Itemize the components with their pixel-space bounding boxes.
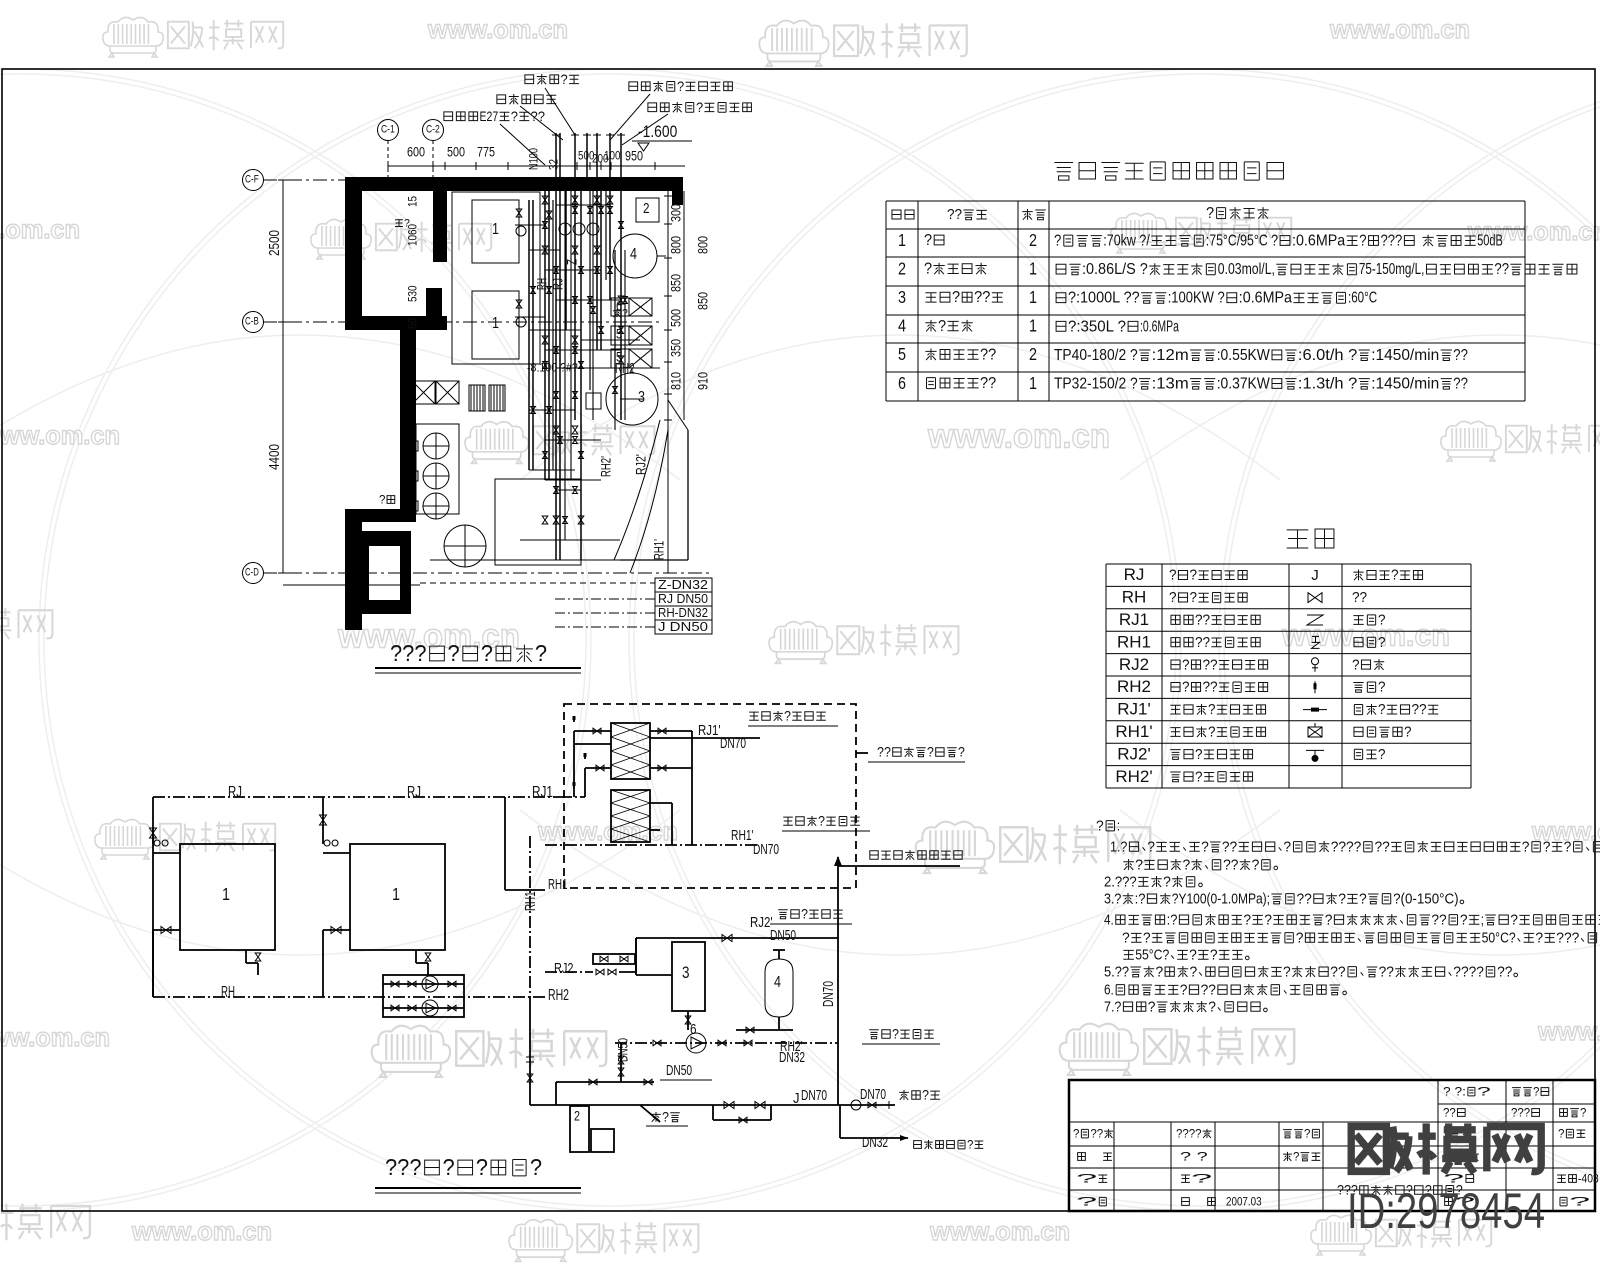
svg-text:www.om.cn: www.om.cn	[1329, 14, 1470, 44]
svg-text:C-F: C-F	[245, 174, 259, 186]
svg-text:1: 1	[1029, 316, 1037, 336]
svg-text:ID:2978454: ID:2978454	[1347, 1183, 1545, 1239]
svg-text:www.om.cn: www.om.cn	[927, 417, 1110, 455]
title block grid	[1437, 1080, 1439, 1211]
watermark tile	[1311, 1215, 1371, 1255]
svg-text:?: ?	[924, 261, 932, 278]
svg-text:Z-DN32: Z-DN32	[658, 577, 708, 592]
svg-text:?: ?	[1076, 1195, 1098, 1209]
svg-text::?: :?	[1167, 912, 1178, 928]
svg-text:350: 350	[668, 339, 683, 357]
svg-text:?: ?	[1148, 999, 1156, 1015]
svg-text:?: ?	[1243, 912, 1251, 928]
svg-text:?: ?	[892, 1026, 899, 1041]
svg-text:-8.100 ?#?: -8.100 ?#?	[527, 361, 578, 375]
equipment row 1	[898, 230, 906, 250]
svg-text:15: 15	[406, 196, 420, 207]
svg-text:1: 1	[1029, 258, 1037, 278]
svg-text:5: 5	[898, 344, 906, 364]
svg-text:?: ?	[1208, 702, 1216, 718]
riser top ticks	[552, 134, 560, 136]
svg-text:?: ?	[938, 318, 946, 335]
equipment row 4	[898, 316, 906, 336]
svg-text:RJ2: RJ2	[1119, 655, 1149, 674]
svg-text:?: ?	[1156, 964, 1164, 980]
scheme pipe RH	[153, 996, 545, 998]
svg-text:??: ??	[1379, 964, 1394, 980]
svg-text:RJ1: RJ1	[1119, 610, 1149, 629]
svg-text:800: 800	[695, 236, 710, 254]
svg-text:RJ2': RJ2'	[1117, 744, 1150, 763]
svg-text:C-2: C-2	[426, 124, 440, 136]
svg-text:810: 810	[668, 372, 683, 390]
svg-text:?: ?	[952, 289, 960, 306]
svg-text:RH1': RH1'	[651, 539, 666, 560]
svg-text:?: ?	[1359, 891, 1367, 907]
svg-text:E27: E27	[480, 108, 499, 124]
svg-text:?: ?	[1283, 839, 1291, 855]
svg-text:2007.03: 2007.03	[1226, 1195, 1262, 1209]
floor drain circle	[444, 525, 486, 567]
main bottom line	[530, 1104, 841, 1106]
svg-text:DN32: DN32	[779, 1050, 805, 1066]
svg-text::70kw ?/: :70kw ?/	[1103, 233, 1150, 250]
svg-text:100: 100	[604, 149, 621, 163]
svg-text:DN70: DN70	[860, 1087, 886, 1103]
svg-text:Z: Z	[564, 259, 579, 265]
svg-text:?: ?	[1533, 1085, 1540, 1099]
svg-text:?: ?	[1391, 568, 1399, 584]
svg-text:?: ?	[1073, 1127, 1080, 1141]
svg-text:5: 5	[616, 326, 622, 341]
svg-text:www.om.cn: www.om.cn	[0, 214, 80, 244]
svg-text:?: ?	[927, 744, 934, 759]
svg-text:?: ?	[1208, 999, 1216, 1015]
equipment table title	[1054, 162, 1283, 180]
svg-text:?: ?	[1208, 725, 1216, 741]
svg-text:1: 1	[222, 884, 230, 904]
svg-text:RJ: RJ	[550, 278, 565, 290]
hx plate B	[611, 790, 650, 842]
svg-text:RH2: RH2	[548, 987, 569, 1004]
equipment row 2	[898, 258, 906, 278]
balance tank line	[837, 857, 839, 1105]
axis C-1	[378, 120, 399, 141]
svg-text:600: 600	[407, 144, 425, 159]
svg-text:?: ?	[1169, 590, 1177, 606]
plan risers	[555, 133, 557, 560]
svg-text:4: 4	[774, 974, 781, 991]
svg-text:2.???: 2.???	[1104, 874, 1137, 890]
scheme title	[385, 1154, 542, 1180]
svg-text:RH1: RH1	[523, 892, 539, 912]
svg-text:??: ??	[1297, 891, 1312, 907]
svg-text:3: 3	[898, 287, 906, 307]
watermark tile	[1060, 1024, 1138, 1075]
svg-text:??: ??	[1494, 261, 1509, 278]
svg-text:www.om.cn: www.om.cn	[1537, 1016, 1600, 1046]
svg-text:1: 1	[492, 315, 499, 332]
plan bottom pipe labels	[655, 578, 712, 592]
svg-text:?: ?	[1183, 857, 1191, 873]
svg-text:?: ?	[1190, 964, 1198, 980]
svg-text:?: ?	[1378, 613, 1386, 629]
legend title	[1287, 529, 1334, 548]
svg-text:32: 32	[547, 159, 561, 170]
svg-text::1.3t/h ?: :1.3t/h ?	[1298, 376, 1358, 393]
svg-text:?: ?	[1352, 657, 1360, 673]
svg-text:DN50: DN50	[770, 928, 796, 944]
svg-text:?: ?	[1378, 747, 1386, 763]
DN50 drop	[615, 1038, 630, 1062]
boiler 1 top	[472, 200, 519, 263]
boiler 1 bottom	[472, 291, 519, 359]
svg-text:?: ?	[1569, 1195, 1591, 1209]
svg-text:?: ?	[1190, 568, 1198, 584]
svg-text:?: ?	[1378, 635, 1386, 651]
pool flow label	[877, 744, 965, 759]
svg-text:?: ?	[443, 1154, 455, 1180]
svg-text::1450/min: :1450/min	[1371, 376, 1439, 393]
svg-text:50°C?: 50°C?	[1482, 930, 1516, 946]
hx boxes 6 5 5	[611, 298, 652, 316]
svg-text:?: ?	[1378, 680, 1386, 696]
svg-text:6: 6	[898, 373, 906, 393]
svg-text:??: ??	[1412, 702, 1427, 718]
svg-text:RH: RH	[1122, 588, 1147, 607]
svg-text:RJ: RJ	[1124, 565, 1145, 584]
svg-text:RH1': RH1'	[731, 828, 754, 844]
svg-text:?: ?	[924, 232, 932, 249]
svg-text:2: 2	[643, 201, 650, 217]
svg-text::100KW ?: :100KW ?	[1168, 290, 1225, 307]
svg-text::0.37KW: :0.37KW	[1217, 376, 1270, 393]
svg-text:?: ?	[511, 108, 518, 124]
svg-text:?: ?	[1564, 839, 1572, 855]
svg-text:3.?: 3.?	[1104, 891, 1121, 907]
svg-text:?: ?	[1206, 205, 1214, 222]
svg-text:??: ??	[1223, 857, 1238, 873]
svg-text:J: J	[793, 1091, 800, 1107]
svg-text:500: 500	[447, 144, 465, 159]
svg-text:RH: RH	[221, 984, 235, 1001]
svg-text:??: ??	[980, 346, 996, 363]
svg-text:??: ??	[1443, 1106, 1456, 1120]
svg-text:910: 910	[695, 372, 710, 390]
svg-text:?: ?	[1096, 818, 1104, 834]
riser valves extra	[573, 207, 578, 214]
plan x-boxes	[412, 381, 435, 404]
pipe RJ1'	[650, 737, 760, 739]
svg-text:75-150mg/L,: 75-150mg/L,	[1359, 261, 1425, 278]
pipe RH1'	[545, 844, 760, 846]
svg-text:TP40-180/2 ?: TP40-180/2 ?	[1054, 347, 1138, 364]
pump group	[383, 975, 464, 1017]
watermark tile	[1441, 421, 1501, 461]
svg-text:?: ?	[1195, 769, 1203, 785]
svg-text:?: ?	[530, 1154, 542, 1180]
svg-text:850: 850	[668, 274, 683, 292]
svg-text:C-D: C-D	[245, 567, 259, 579]
plan left dim line	[282, 180, 284, 573]
notes	[1096, 818, 1120, 834]
plan small manifold box	[586, 393, 601, 409]
svg-text:www.om.cn: www.om.cn	[0, 420, 120, 450]
watermark tile	[103, 17, 163, 57]
city water line	[841, 1104, 895, 1106]
svg-text:??: ??	[1330, 964, 1345, 980]
svg-text:???: ???	[390, 640, 427, 666]
svg-text:??: ??	[1497, 964, 1512, 980]
svg-text:?(0-150°C): ?(0-150°C)	[1393, 891, 1459, 907]
equipment table grid	[886, 200, 1525, 202]
svg-text:??: ??	[974, 289, 990, 306]
svg-text:DN70: DN70	[720, 736, 746, 752]
svg-text:??: ??	[1195, 613, 1210, 629]
svg-text:1: 1	[492, 221, 499, 238]
watermark tile	[465, 422, 528, 464]
right dim chain	[667, 191, 669, 573]
svg-text:?: ?	[1338, 891, 1346, 907]
svg-text:?: ?	[1535, 930, 1543, 946]
boiler B	[350, 844, 445, 950]
plan riser annotation N100	[527, 148, 541, 170]
svg-text:?: ?	[535, 640, 547, 666]
vertical labels RH RJ	[534, 278, 549, 290]
svg-text:www.om.cn: www.om.cn	[1281, 618, 1450, 653]
svg-text:????: ????	[1453, 964, 1484, 980]
svg-text:????: ????	[1331, 839, 1362, 855]
svg-text:? ?:: ? ?:	[1443, 1085, 1466, 1099]
svg-text:?: ?	[1163, 874, 1171, 890]
svg-text:DN50: DN50	[666, 1063, 692, 1079]
svg-text:?: ?	[404, 218, 410, 230]
svg-text:5.??: 5.??	[1104, 964, 1129, 980]
svg-text:???: ???	[385, 1154, 422, 1180]
svg-text::: :	[1117, 818, 1120, 834]
svg-text:6.: 6.	[1104, 982, 1114, 998]
label RH2	[615, 361, 635, 377]
svg-text:?: ?	[1558, 1127, 1565, 1141]
svg-text:?: ?	[958, 744, 965, 759]
plan grates	[469, 385, 485, 411]
plan interior wall	[433, 191, 447, 262]
plan bottom arcs	[614, 420, 660, 560]
svg-text:DN70: DN70	[753, 842, 779, 858]
plan walls	[345, 177, 683, 191]
svg-text:?: ?	[818, 813, 825, 828]
pump circles enclosure	[416, 424, 459, 514]
svg-text:DN32: DN32	[862, 1135, 888, 1151]
level -1.600	[638, 122, 677, 141]
J DN70 labels	[793, 1091, 800, 1107]
svg-text:??: ??	[1203, 680, 1218, 696]
svg-text:?: ?	[696, 99, 703, 115]
sampling box 2	[570, 1106, 589, 1152]
equipment 2 box	[636, 198, 659, 222]
svg-text:??: ??	[1453, 347, 1468, 364]
svg-text:530: 530	[406, 285, 420, 302]
svg-text:?: ?	[1359, 233, 1367, 250]
svg-text:2: 2	[1029, 344, 1037, 364]
boiler A	[180, 844, 275, 950]
svg-text:RJ2: RJ2	[554, 961, 574, 977]
svg-text:500: 500	[668, 309, 683, 327]
tank 3	[672, 942, 705, 1011]
svg-text:4.: 4.	[1104, 912, 1114, 928]
plan inner dim labels	[406, 196, 420, 207]
svg-text:?: ?	[1252, 857, 1260, 873]
svg-text:?: ?	[1054, 233, 1062, 250]
watermark tile	[769, 622, 832, 664]
svg-text:?: ?	[1135, 857, 1143, 873]
equipment row 5	[898, 344, 906, 364]
svg-text:??: ??	[1201, 982, 1216, 998]
svg-text::12m: :12m	[1152, 347, 1189, 364]
pipe RJ2	[554, 961, 574, 977]
dark watermark logo	[1351, 1127, 1410, 1172]
svg-text:??: ??	[1431, 912, 1446, 928]
svg-text:DN50: DN50	[615, 1038, 630, 1062]
svg-text:2500: 2500	[267, 230, 283, 256]
svg-text:55°C?: 55°C?	[1135, 947, 1169, 963]
svg-text:?: ?	[1195, 747, 1203, 763]
svg-text:?: ?	[967, 1138, 974, 1152]
svg-text:?: ?	[1147, 839, 1155, 855]
scheme pipe RJ	[153, 796, 560, 798]
plan valves	[516, 209, 522, 217]
svg-text:?: ?	[1510, 912, 1518, 928]
svg-text:4: 4	[898, 316, 906, 336]
svg-text:J DN50: J DN50	[658, 619, 708, 634]
svg-text::0.6MPa: :0.6MPa	[1140, 318, 1179, 335]
svg-text:? ?: ? ?	[1180, 1150, 1208, 1164]
title block text	[1443, 1085, 1491, 1099]
axis C-B	[243, 312, 264, 333]
svg-text:RH1': RH1'	[1115, 722, 1152, 741]
svg-text:?: ?	[801, 906, 808, 921]
scheme left drop	[152, 797, 154, 997]
pump 6 line	[615, 1042, 838, 1044]
svg-text:-403: -403	[1578, 1172, 1599, 1186]
svg-text:TP32-150/2 ?: TP32-150/2 ?	[1054, 376, 1138, 393]
watermark tile	[509, 1220, 572, 1262]
courtyard branch	[839, 1105, 841, 1138]
svg-text:?: ?	[561, 71, 568, 87]
right side pipe loop	[687, 430, 689, 560]
svg-text:??: ??	[1453, 376, 1468, 393]
svg-text:RJ1': RJ1'	[698, 723, 721, 739]
watermark tile	[1111, 213, 1171, 253]
bottom square	[495, 479, 581, 565]
svg-text:;: ;	[1481, 912, 1484, 928]
svg-text:?:1000L ??: ?:1000L ??	[1068, 290, 1140, 307]
plan top annotations	[525, 71, 579, 87]
svg-text:0.03mol/L,: 0.03mol/L,	[1218, 261, 1275, 278]
svg-text:???: ???	[1511, 1106, 1530, 1120]
svg-text:6: 6	[690, 1022, 697, 1038]
svg-text:RJ: RJ	[407, 784, 421, 801]
svg-text:300: 300	[668, 204, 683, 222]
title block frame	[1069, 1080, 1595, 1211]
svg-text:50dB: 50dB	[1477, 233, 1503, 250]
svg-text:www.om.cn: www.om.cn	[929, 1216, 1070, 1246]
axis C-2	[423, 120, 444, 141]
svg-text:??: ??	[947, 207, 962, 223]
svg-text::60°C: :60°C	[1348, 290, 1377, 307]
svg-text::6.0t/h ?: :6.0t/h ?	[1298, 347, 1358, 364]
plan title	[390, 640, 547, 666]
svg-text:www.om.cn: www.om.cn	[131, 1216, 272, 1246]
svg-text:2: 2	[898, 258, 906, 278]
svg-text:J: J	[1311, 567, 1319, 584]
svg-text:2: 2	[1029, 230, 1037, 250]
left drop x530	[529, 997, 531, 1105]
svg-text::0.6MPa: :0.6MPa	[1292, 233, 1345, 250]
equipment table header	[892, 210, 914, 219]
svg-text:DN70: DN70	[821, 981, 837, 1007]
svg-text:60: 60	[406, 318, 420, 329]
svg-text:?: ?	[1296, 930, 1304, 946]
svg-text:?: ?	[1191, 1172, 1213, 1186]
riser cross ties	[529, 249, 560, 251]
svg-text:775: 775	[477, 144, 495, 159]
svg-text::1450/min: :1450/min	[1371, 347, 1439, 364]
svg-text:1: 1	[1029, 287, 1037, 307]
svg-text:?: ?	[448, 640, 460, 666]
svg-text:??: ??	[1203, 657, 1218, 673]
pipe RJ2'	[636, 937, 838, 939]
svg-text:RH1: RH1	[548, 877, 568, 893]
svg-text:850: 850	[695, 292, 710, 310]
small text room	[379, 493, 395, 507]
svg-text:7.?: 7.?	[1104, 999, 1121, 1015]
svg-text:??: ??	[1352, 590, 1367, 606]
svg-text:?: ?	[1378, 702, 1386, 718]
svg-text:DN70: DN70	[801, 1088, 827, 1104]
legend grid	[1106, 563, 1471, 565]
svg-text:?: ?	[1580, 1106, 1587, 1120]
svg-text:www.om.cn: www.om.cn	[537, 816, 678, 846]
plan top dim line	[388, 165, 685, 167]
svg-text:www.om.cn: www.om.cn	[0, 1022, 110, 1052]
svg-text:RJ1: RJ1	[532, 784, 553, 801]
svg-text:4400: 4400	[267, 444, 283, 470]
svg-text:-1.600: -1.600	[638, 122, 677, 141]
svg-text::13m: :13m	[1152, 376, 1189, 393]
svg-text:??: ??	[531, 108, 546, 124]
svg-text:?: ?	[379, 493, 386, 507]
svg-text:?: ?	[1182, 657, 1190, 673]
svg-text:?: ?	[677, 78, 684, 94]
watermark tile	[916, 822, 994, 873]
svg-text:?: ?	[1477, 1085, 1491, 1099]
extra risers	[564, 190, 566, 540]
svg-text:?: ?	[662, 1109, 669, 1124]
hx plate A	[611, 723, 650, 779]
svg-text:????: ????	[1176, 1127, 1202, 1141]
watermark tile	[95, 819, 155, 859]
svg-text:RH2': RH2'	[598, 456, 613, 477]
svg-text:??: ??	[1090, 1127, 1103, 1141]
svg-text:?: ?	[1180, 982, 1188, 998]
vessel 4	[765, 959, 793, 1017]
svg-text:???: ???	[1381, 233, 1403, 250]
svg-text:?: ?	[476, 1154, 488, 1180]
svg-text:RJ1': RJ1'	[1117, 700, 1150, 719]
svg-text:RH: RH	[534, 278, 549, 290]
plan pipe horizontals	[515, 224, 545, 226]
